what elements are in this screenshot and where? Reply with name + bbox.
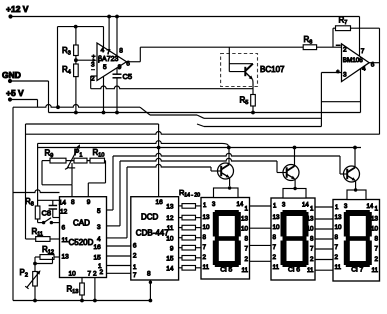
svg-text:13: 13 <box>371 216 379 223</box>
svg-text:10: 10 <box>371 226 379 233</box>
svg-text:2: 2 <box>100 269 104 276</box>
svg-text:13: 13 <box>241 216 249 223</box>
svg-text:2: 2 <box>343 47 347 54</box>
svg-text:12: 12 <box>60 209 68 216</box>
svg-text:4: 4 <box>101 47 105 54</box>
svg-text:4: 4 <box>362 66 366 73</box>
svg-text:11: 11 <box>62 237 69 244</box>
svg-text:βA723: βA723 <box>98 56 118 63</box>
svg-text:10: 10 <box>203 224 211 231</box>
svg-text:13: 13 <box>203 214 211 221</box>
svg-text:4: 4 <box>97 236 101 243</box>
svg-text:2: 2 <box>203 254 207 261</box>
svg-text:*: * <box>336 69 339 78</box>
svg-text:6: 6 <box>371 61 375 68</box>
svg-text:13: 13 <box>335 214 343 221</box>
svg-text:7: 7 <box>244 246 248 253</box>
svg-text:9: 9 <box>118 64 122 71</box>
svg-text:10: 10 <box>241 226 249 233</box>
svg-text:8: 8 <box>310 236 314 243</box>
svg-text:Ci 7: Ci 7 <box>351 266 363 273</box>
svg-text:7: 7 <box>88 271 92 278</box>
svg-text:Ci 5: Ci 5 <box>220 266 232 273</box>
svg-text:2: 2 <box>244 256 248 263</box>
svg-text:7: 7 <box>335 244 339 251</box>
svg-text:8: 8 <box>335 234 339 241</box>
svg-text:11: 11 <box>167 225 174 232</box>
svg-text:3: 3 <box>91 62 95 69</box>
svg-text:2: 2 <box>273 254 277 261</box>
svg-text:+5 V: +5 V <box>6 88 24 98</box>
svg-text:14: 14 <box>237 202 244 208</box>
svg-text:7: 7 <box>374 246 378 253</box>
svg-text:7: 7 <box>203 244 207 251</box>
svg-text:13: 13 <box>166 204 174 211</box>
svg-text:+: + <box>92 53 96 60</box>
svg-text:2: 2 <box>374 256 378 263</box>
svg-text:11: 11 <box>335 264 342 271</box>
svg-text:C520D: C520D <box>69 238 94 247</box>
svg-text:7: 7 <box>273 244 277 251</box>
svg-text:2: 2 <box>91 76 95 83</box>
svg-text:14: 14 <box>302 203 309 209</box>
svg-text:+12 V: +12 V <box>6 4 29 14</box>
svg-text:2: 2 <box>133 253 137 260</box>
svg-text:GND: GND <box>2 70 21 80</box>
svg-text:6: 6 <box>126 60 130 67</box>
svg-text:9: 9 <box>170 245 174 252</box>
svg-text:11: 11 <box>307 267 314 274</box>
svg-text:2: 2 <box>93 271 97 278</box>
svg-text:11: 11 <box>371 267 378 274</box>
svg-text:8: 8 <box>374 236 378 243</box>
svg-text:3: 3 <box>343 72 347 79</box>
svg-text:CAD: CAD <box>73 219 90 228</box>
svg-text:11: 11 <box>241 267 248 274</box>
svg-text:8: 8 <box>273 234 277 241</box>
svg-text:14: 14 <box>367 204 374 210</box>
svg-text:13: 13 <box>62 254 70 261</box>
svg-text:14: 14 <box>166 265 174 272</box>
svg-text:15: 15 <box>94 255 102 262</box>
svg-text:1: 1 <box>310 206 314 213</box>
svg-text:8: 8 <box>147 271 151 278</box>
svg-text:5: 5 <box>97 208 101 215</box>
svg-text:1: 1 <box>374 206 378 213</box>
svg-text:7: 7 <box>310 246 314 253</box>
svg-text:1: 1 <box>133 264 137 271</box>
svg-text:7: 7 <box>107 49 111 56</box>
svg-text:15: 15 <box>166 255 174 262</box>
svg-text:9: 9 <box>87 199 91 206</box>
svg-text:BC107: BC107 <box>260 65 285 74</box>
svg-text:5: 5 <box>103 64 107 71</box>
svg-text:3: 3 <box>97 224 101 231</box>
svg-text:8: 8 <box>244 236 248 243</box>
svg-text:14: 14 <box>59 200 67 207</box>
svg-text:8: 8 <box>119 48 123 55</box>
svg-text:–: – <box>336 42 340 49</box>
svg-text:6: 6 <box>62 225 66 232</box>
svg-text:10: 10 <box>69 271 77 278</box>
svg-text:C5: C5 <box>123 72 133 81</box>
svg-text:1: 1 <box>244 206 248 213</box>
svg-text:11: 11 <box>273 264 280 271</box>
svg-text:8: 8 <box>71 199 75 206</box>
svg-text:C8: C8 <box>42 209 52 218</box>
svg-text:11: 11 <box>203 264 210 271</box>
svg-text:7: 7 <box>133 272 137 279</box>
svg-text:10: 10 <box>273 224 281 231</box>
svg-text:16: 16 <box>94 244 102 251</box>
svg-text:16: 16 <box>156 199 164 206</box>
svg-text:10: 10 <box>166 235 174 242</box>
svg-text:12: 12 <box>166 215 174 222</box>
svg-text:DCD: DCD <box>141 213 159 222</box>
svg-text:BM108: BM108 <box>343 57 363 64</box>
svg-text:2: 2 <box>335 254 339 261</box>
svg-text:CDB-447: CDB-447 <box>136 229 169 238</box>
svg-text:7: 7 <box>361 48 365 55</box>
svg-text:2: 2 <box>310 256 314 263</box>
svg-text:6: 6 <box>133 243 137 250</box>
svg-text:Ci 6: Ci 6 <box>288 266 300 273</box>
svg-text:8: 8 <box>203 234 207 241</box>
svg-text:13: 13 <box>273 214 281 221</box>
svg-text:10: 10 <box>335 224 343 231</box>
